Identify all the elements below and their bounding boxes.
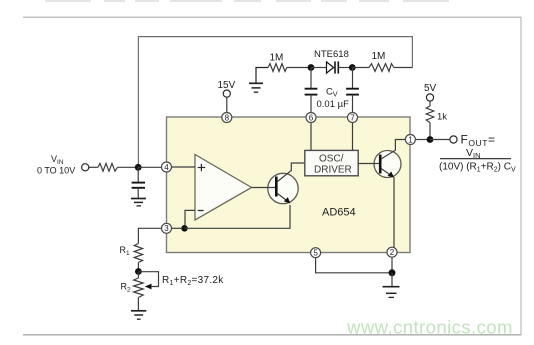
wire 5V to 1k (429, 101, 431, 106)
wire VIN node to pin 4 (138, 166, 161, 168)
svg-text:R1+R2=37.2k: R1+R2=37.2k (162, 275, 224, 287)
potentiometer R2 (134, 278, 144, 298)
wire op-amp output to Q1 base (252, 187, 276, 189)
wire right 1M to feedback rail (394, 67, 413, 69)
wire node to ground (391, 273, 393, 286)
svg-text:1: 1 (408, 135, 413, 144)
svg-text:0.01 µF: 0.01 µF (317, 99, 350, 110)
terminal FOUT (450, 136, 457, 143)
svg-text:3: 3 (164, 224, 169, 233)
box OSC/DRIVER (305, 150, 358, 175)
wire pin 6 to OSC box (310, 123, 312, 151)
pin 2 (387, 247, 397, 257)
wire pin 7 to OSC box (352, 123, 354, 151)
capacitor input bypass (132, 183, 145, 188)
svg-text:OSC/: OSC/ (319, 154, 344, 165)
wire FOUT node to output terminal (430, 139, 450, 141)
node R1/R2 junction dot (135, 268, 142, 275)
ground for left 1M resistor (249, 68, 268, 93)
wire node B to right 1M (352, 67, 369, 69)
decorative frame lines (23, 16, 521, 18)
wire terminal to input resistor (89, 166, 98, 168)
svg-text:1M: 1M (270, 52, 284, 63)
wire pin3 net to Q1 emitter (185, 205, 291, 228)
transistor Q2 (374, 151, 401, 178)
resistor R1 (134, 244, 142, 263)
decorative top dashed remnants (45, 0, 452, 2)
node FOUT junction dot (427, 136, 434, 143)
svg-text:4: 4 (164, 163, 169, 172)
svg-text:5: 5 (313, 249, 318, 258)
node A junction dot (308, 64, 315, 71)
Q1 collector (278, 163, 305, 182)
Q2 collector to pin 1 (381, 140, 405, 159)
svg-text:(10V) (R1+R2) CV: (10V) (R1+R2) CV (439, 161, 516, 173)
wire capacitor to pin 6 (310, 95, 312, 113)
transistor Q1 (268, 173, 298, 203)
capacitor Cv (right half) (346, 89, 359, 95)
svg-text:R2: R2 (121, 282, 132, 294)
wire op-amp - input to pin3 net (185, 210, 195, 225)
wire node B down to capacitor (352, 68, 354, 89)
svg-text:1k: 1k (437, 112, 447, 123)
svg-text:VIN: VIN (51, 154, 64, 166)
svg-text:8: 8 (225, 113, 230, 122)
resistor 1M (right) (369, 64, 394, 72)
svg-text:CV: CV (326, 86, 338, 98)
node VIN junction dot (135, 164, 142, 171)
op-amp - input symbol (198, 210, 204, 212)
wire OSC box to Q2 base (358, 163, 379, 165)
svg-text:VIN: VIN (466, 147, 481, 160)
wire node to R2 (137, 272, 139, 279)
capacitor Cv (left half) (305, 89, 318, 95)
wire resistor to VIN node (118, 166, 136, 168)
wire capacitor to pin 7 (352, 95, 354, 113)
Q2 emitter with arrow (381, 169, 392, 176)
ground input bypass (131, 199, 146, 206)
resistor input series (98, 163, 118, 171)
wire R2 to ground (137, 298, 139, 311)
svg-text:2: 2 (390, 248, 395, 257)
resistor 1k (426, 106, 434, 123)
op-amp + input symbol (198, 164, 206, 171)
node B junction dot (349, 64, 356, 71)
svg-text:NTE618: NTE618 (314, 49, 349, 60)
varactor diode NTE618 (327, 61, 339, 73)
wire pin 3 to R1 branch (138, 228, 161, 243)
wire capacitor to ground (137, 188, 139, 198)
wire node A down to capacitor (310, 68, 312, 89)
node pin3/- junction dot (181, 225, 188, 232)
pin 1 (405, 135, 415, 145)
wire diode to node B (338, 67, 349, 69)
IC U1 AD654 body (167, 117, 411, 253)
pin 3 (162, 223, 172, 233)
wire Q2 emitter to pin 2 (393, 177, 395, 248)
wire pin 3 into block (172, 227, 182, 229)
wire VIN node down to input capacitor (137, 167, 139, 182)
svg-text:15V: 15V (218, 80, 236, 91)
svg-text:7: 7 (350, 113, 355, 122)
op-amp U1a (195, 155, 252, 221)
svg-text:FOUT=: FOUT= (461, 132, 496, 148)
wire 15V to pin 8 (226, 97, 228, 112)
pin 5 (311, 248, 321, 258)
svg-text:5V: 5V (424, 83, 437, 94)
svg-text:6: 6 (309, 113, 314, 122)
ground output (383, 287, 400, 298)
wire feedback rail from output loop to VIN node (138, 37, 412, 166)
R2 wiper arm (138, 272, 158, 287)
pin 4 (162, 162, 172, 172)
pin 6 (306, 113, 316, 123)
wire pin5/pin2 to ground (316, 258, 389, 273)
svg-text:1M: 1M (372, 51, 386, 62)
pin 7 (348, 113, 358, 123)
svg-text:AD654: AD654 (322, 207, 356, 219)
wire R1 to node (137, 263, 139, 269)
wire pin 1 to FOUT node (415, 139, 427, 141)
svg-text:www.cntronics.com: www.cntronics.com (346, 317, 513, 338)
wire 1M to node A (287, 67, 308, 69)
wire 1k to FOUT node (429, 123, 431, 137)
Q1 emitter with arrow (278, 194, 289, 203)
resistor 1M (left) (268, 64, 287, 72)
node pin5/pin2 junction dot (389, 269, 396, 276)
ground R2 (131, 311, 146, 319)
pin 8 (222, 113, 232, 123)
wire pin 4 to op-amp + input (172, 166, 196, 168)
wire node A to diode (311, 67, 327, 69)
svg-text:R1: R1 (120, 245, 131, 257)
svg-text:0 TO 10V: 0 TO 10V (37, 166, 75, 176)
svg-text:DRIVER: DRIVER (314, 165, 352, 176)
